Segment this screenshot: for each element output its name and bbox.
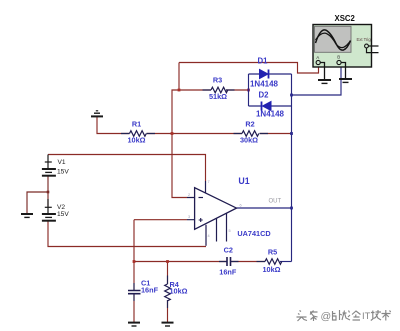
svg-text:4: 4: [208, 234, 210, 238]
capacitor C2 16nF: [219, 246, 239, 277]
wire inverting node to scope channel A: [179, 63, 319, 74]
resistor R2 30kΩ: [234, 119, 269, 144]
scope terminal A: [316, 55, 320, 65]
diode D1 1N4148: [250, 57, 279, 89]
wire wien shunt line to C2: [134, 261, 227, 263]
ground at R1 input (inverted): [91, 111, 103, 117]
node junction OUT to channel B: [290, 94, 293, 97]
node junction wien C1: [133, 260, 136, 263]
svg-text:U1: U1: [238, 176, 249, 186]
svg-text:R2: R2: [245, 119, 254, 128]
ground below scope A: [318, 80, 331, 83]
wire R4 top: [167, 262, 169, 285]
wire V2 negative rail to op-amp VCC-: [48, 221, 206, 247]
svg-text:A: A: [316, 55, 319, 60]
node junction wien R4: [166, 260, 169, 263]
wire scope B minus elbow: [341, 63, 345, 79]
capacitor C1 16nF: [128, 279, 159, 302]
wire R2 right to output vertical: [260, 133, 292, 135]
svg-text:10kΩ: 10kΩ: [170, 286, 188, 295]
svg-text:1N4148: 1N4148: [250, 79, 279, 88]
svg-text:7: 7: [208, 180, 210, 184]
wire inverting node vertical (with jog) down to op-amp minus input: [172, 63, 187, 198]
svg-text:R1: R1: [132, 120, 141, 129]
svg-text:3: 3: [188, 215, 190, 219]
wire OUT net to scope channel B: [292, 65, 342, 96]
wire C1 bottom to ground: [133, 294, 135, 322]
wire C2 to R5: [231, 261, 266, 263]
wire V1 positive rail to op-amp VCC+: [48, 155, 206, 182]
ground below C1: [128, 323, 140, 326]
svg-text:2: 2: [188, 193, 190, 197]
node junction diode box left: [247, 89, 250, 92]
scope terminal B: [337, 54, 341, 64]
svg-text:Ext Trig: Ext Trig: [357, 37, 372, 42]
svg-text:R5: R5: [268, 248, 277, 257]
resistor R3 51kΩ: [203, 75, 235, 101]
svg-text:R3: R3: [213, 75, 222, 84]
node junction OUT at op-amp output: [290, 207, 293, 210]
wire R5 right to OUT vertical: [280, 261, 292, 263]
wire C1 top: [133, 262, 135, 291]
wire op-amp output to OUT vertical: [237, 207, 292, 209]
svg-text:D1: D1: [258, 57, 269, 66]
svg-text:15V: 15V: [57, 169, 69, 176]
ground below scope B: [339, 79, 352, 82]
wire non-inverting input drop: [134, 220, 187, 262]
wire node to R3 left: [179, 89, 211, 91]
ground below R4: [162, 323, 174, 326]
wire diode D2 branch: [249, 105, 292, 107]
ground at battery midpoint: [21, 214, 33, 217]
svg-text:10kΩ: 10kΩ: [262, 265, 280, 274]
svg-text:1N4148: 1N4148: [256, 109, 285, 118]
svg-text:D2: D2: [259, 90, 270, 99]
battery V1 15V: [42, 155, 69, 176]
svg-text:16nF: 16nF: [219, 268, 237, 277]
wire battery midpoint to ground: [27, 177, 48, 214]
op-amp U1 UA741CD: [187, 176, 271, 246]
svg-text:5: 5: [229, 229, 231, 233]
svg-text:16nF: 16nF: [141, 286, 159, 295]
wire ground stub to R1 left: [97, 117, 130, 134]
wire R4 bottom to ground: [167, 300, 169, 322]
node junction OUT to R2: [290, 132, 293, 135]
node junction inverting line: [171, 132, 174, 135]
resistor R5 10kΩ: [257, 248, 282, 275]
svg-text:V1: V1: [58, 159, 66, 166]
svg-text:OUT: OUT: [269, 199, 282, 205]
node junction battery midpoint: [47, 191, 50, 194]
wire R1 right to R2 left (inverting node): [147, 133, 243, 135]
svg-text:XSC2: XSC2: [335, 14, 356, 23]
svg-text:30kΩ: 30kΩ: [240, 135, 258, 144]
wire OUT net vertical: [291, 74, 293, 262]
svg-text:B: B: [337, 54, 340, 59]
battery V2 15V: [42, 199, 69, 221]
wire scope A minus elbow: [320, 63, 324, 80]
wire ext trig stubs: [367, 46, 379, 53]
wire diode D1 branch: [249, 73, 292, 75]
svg-text:15V: 15V: [57, 211, 69, 218]
diode D2 1N4148: [256, 90, 285, 118]
svg-text:C2: C2: [224, 246, 233, 255]
svg-text:51kΩ: 51kΩ: [209, 92, 227, 101]
svg-text:IT: IT: [362, 311, 371, 322]
oscilloscope XSC2: [313, 14, 372, 67]
svg-text:6: 6: [240, 204, 242, 208]
node junction R3 tap: [178, 89, 181, 92]
svg-text:@: @: [321, 311, 332, 323]
watermark 头条 @卧龙会IT技术: [297, 310, 391, 321]
resistor R4 10kΩ (vertical): [165, 276, 188, 309]
wire R3 right to diode pair: [226, 89, 249, 91]
scope ext trig terminal: [365, 44, 369, 48]
svg-text:UA741CD: UA741CD: [237, 229, 270, 238]
wire diode box left side: [248, 74, 250, 106]
svg-text:10kΩ: 10kΩ: [127, 135, 145, 144]
resistor R1 10kΩ: [121, 120, 155, 145]
